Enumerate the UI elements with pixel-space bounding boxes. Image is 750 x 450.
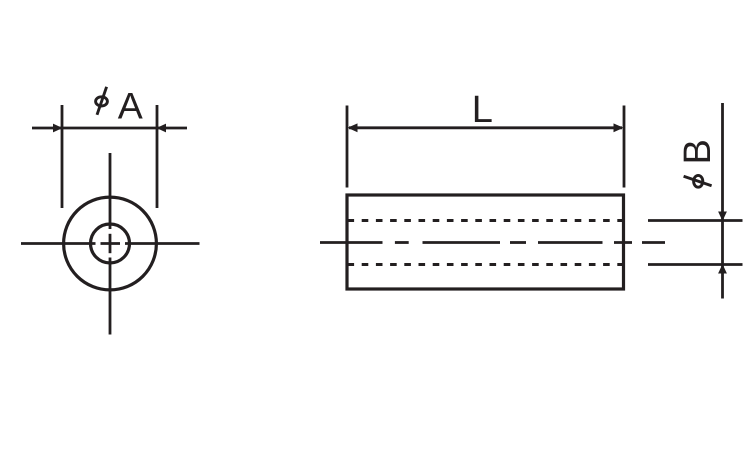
φB label group (rotated 90° CCW) [677,139,719,187]
hole circle (bore) [91,224,130,263]
φB dimension line [721,103,724,299]
φ symbol of φB [684,175,712,187]
front view horizontal centerline [21,242,200,245]
hole hidden line bottom [348,263,624,266]
L arrowhead right (points right) [614,123,624,132]
φA dimension line [32,127,187,130]
L arrowhead left (points left) [348,123,358,132]
φA extension line left [61,105,64,208]
side view centerline [320,241,665,244]
side view rectangle (body outline) [347,195,624,289]
φ symbol of φA [96,87,108,115]
front view vertical centerline [109,153,112,335]
hole hidden line top [348,219,624,222]
φB extension line bottom [648,263,743,266]
outer circle (body OD) [64,197,157,290]
L extension line left [346,106,349,188]
φB arrowhead top (points down) [718,212,727,222]
svg-text:L: L [472,89,493,131]
φB arrowhead bottom (points up) [718,264,727,274]
φA extension line right [156,105,159,208]
φA arrowhead left (points right) [53,124,63,133]
φB extension line top [648,219,743,222]
L dimension line [349,126,622,129]
svg-text:A: A [118,85,143,127]
φA arrowhead right (points left) [157,124,167,133]
L extension line right [623,106,626,188]
svg-text:B: B [677,139,719,164]
